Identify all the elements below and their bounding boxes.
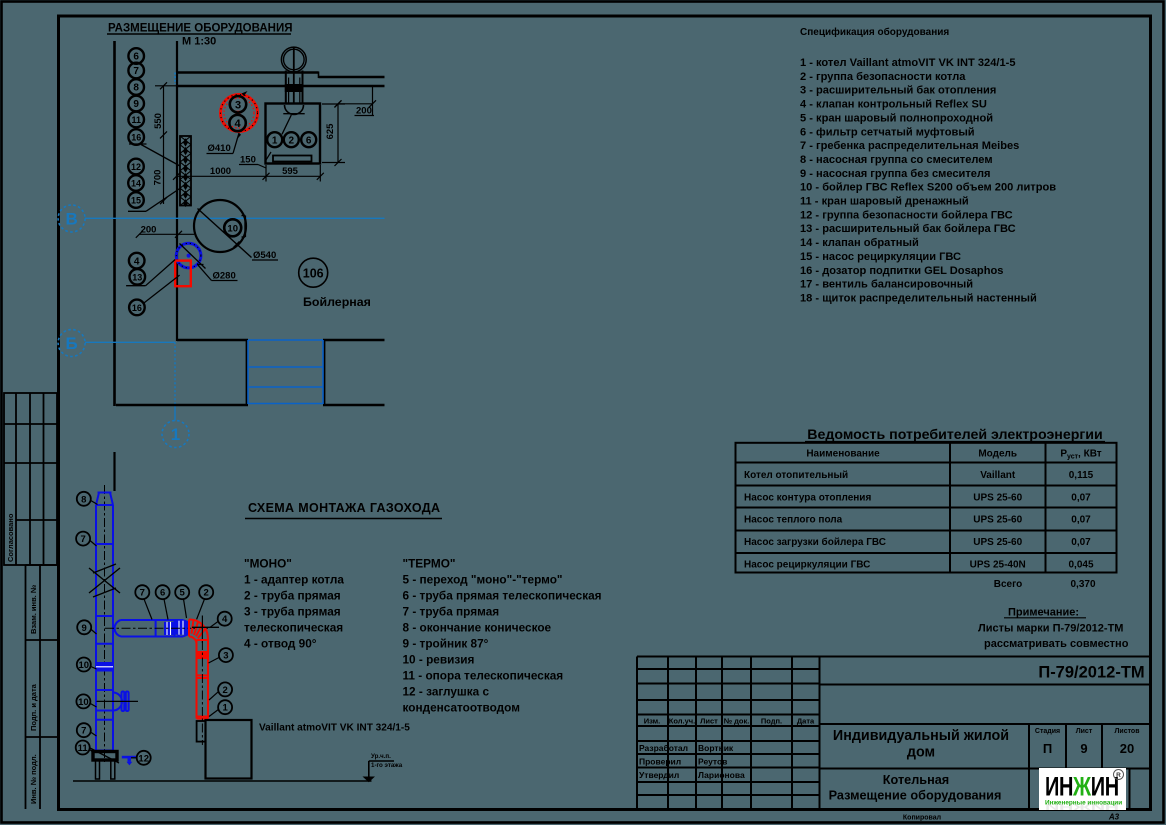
svg-text:9 - насосная группа без смесит: 9 - насосная группа без смесителя bbox=[800, 168, 991, 180]
axis Б line bbox=[85, 341, 175, 343]
svg-text:11 - кран шаровый дренажный: 11 - кран шаровый дренажный bbox=[800, 196, 969, 208]
svg-text:10 - ревизия: 10 - ревизия bbox=[403, 653, 475, 667]
svg-text:дом: дом bbox=[907, 745, 935, 761]
callout 4 lower bbox=[129, 253, 145, 269]
svg-text:200: 200 bbox=[141, 225, 157, 236]
svg-text:2: 2 bbox=[289, 135, 295, 146]
svg-text:9 - тройник 87°: 9 - тройник 87° bbox=[403, 637, 489, 651]
svg-text:150: 150 bbox=[240, 155, 256, 166]
svg-text:14: 14 bbox=[131, 179, 141, 189]
svg-text:Ведомость потребителей электро: Ведомость потребителей электроэнергии bbox=[807, 427, 1103, 443]
callout 5 bbox=[175, 585, 189, 599]
svg-text:1000: 1000 bbox=[210, 166, 231, 177]
red elbow pos4 bbox=[189, 619, 208, 644]
svg-text:20: 20 bbox=[1120, 741, 1134, 756]
stamp signature rows bbox=[639, 743, 745, 780]
svg-text:UPS 25-60: UPS 25-60 bbox=[973, 492, 1022, 503]
svg-text:12 - группа безопасности бойле: 12 - группа безопасности бойлера ГВС bbox=[800, 209, 1013, 221]
svg-text:9: 9 bbox=[82, 623, 87, 634]
svg-text:6: 6 bbox=[306, 135, 312, 146]
boiler elevation bbox=[206, 720, 252, 779]
callout 13 bbox=[130, 269, 146, 285]
window jambs bbox=[246, 340, 248, 405]
svg-text:1: 1 bbox=[171, 425, 180, 444]
svg-text:2: 2 bbox=[222, 685, 227, 696]
svg-text:Кол.уч.: Кол.уч. bbox=[669, 717, 695, 726]
callout 7 upper left bbox=[76, 532, 90, 546]
svg-text:4: 4 bbox=[134, 256, 140, 267]
svg-text:5: 5 bbox=[180, 588, 186, 599]
stamp header labels bbox=[644, 717, 815, 726]
flue entry arc bbox=[285, 105, 304, 115]
svg-text:0,07: 0,07 bbox=[1071, 515, 1091, 526]
svg-text:Котел отопительный: Котел отопительный bbox=[744, 470, 848, 481]
mono red vertical pipe bbox=[197, 638, 209, 719]
dhw tank pos10 bbox=[194, 200, 246, 252]
svg-text:10: 10 bbox=[78, 697, 89, 708]
svg-text:Всего: Всего bbox=[994, 579, 1023, 590]
svg-text:0,07: 0,07 bbox=[1071, 492, 1091, 503]
horizontal axis dash-dot bbox=[105, 627, 208, 629]
svg-text:8: 8 bbox=[81, 494, 86, 505]
callout stack 12,14,15 bbox=[128, 159, 144, 208]
svg-text:4: 4 bbox=[235, 118, 242, 130]
svg-text:рассматривать совместно: рассматривать совместно bbox=[984, 638, 1129, 650]
svg-text:телескопическая: телескопическая bbox=[244, 621, 343, 635]
svg-text:3: 3 bbox=[235, 99, 241, 111]
svg-text:7 - гребенка распределительная: 7 - гребенка распределительная Meibes bbox=[800, 140, 1019, 152]
dim 200 left bbox=[136, 231, 195, 238]
svg-text:Лист: Лист bbox=[1076, 728, 1093, 735]
svg-text:ИНЖИН: ИНЖИН bbox=[1045, 772, 1119, 803]
svg-text:Реутов: Реутов bbox=[698, 757, 727, 767]
svg-text:9: 9 bbox=[133, 99, 139, 110]
svg-text:"ТЕРМО": "ТЕРМО" bbox=[403, 557, 456, 571]
svg-text:Проверил: Проверил bbox=[639, 757, 681, 767]
svg-text:7: 7 bbox=[80, 534, 85, 545]
svg-text:А3: А3 bbox=[1108, 813, 1120, 822]
svg-text:14 - клапан обратный: 14 - клапан обратный bbox=[800, 237, 919, 249]
svg-text:Ø410: Ø410 bbox=[208, 143, 231, 154]
callout 12 bbox=[137, 751, 151, 765]
svg-text:Листов: Листов bbox=[1114, 728, 1140, 735]
ground line bbox=[73, 780, 372, 782]
mono pipe axis bbox=[201, 641, 203, 745]
svg-text:Ур.ч.п.: Ур.ч.п. bbox=[371, 753, 391, 760]
svg-text:Примечание:: Примечание: bbox=[1008, 607, 1079, 619]
callout 9 bbox=[77, 620, 91, 634]
window in wall bbox=[248, 340, 323, 404]
svg-text:Разработал: Разработал bbox=[639, 743, 688, 753]
telescopic section pos6 on vertical bbox=[96, 662, 113, 672]
svg-text:11: 11 bbox=[78, 743, 89, 754]
svg-text:8 - окончание коническое: 8 - окончание коническое bbox=[403, 621, 552, 635]
svg-text:7: 7 bbox=[81, 726, 86, 737]
svg-text:Стадия: Стадия bbox=[1035, 728, 1060, 735]
svg-text:0,07: 0,07 bbox=[1071, 537, 1091, 548]
electric consumers table grid bbox=[736, 443, 1117, 573]
svg-text:Насос рециркуляции ГВС: Насос рециркуляции ГВС bbox=[744, 559, 870, 570]
svg-text:2 - группа безопасности котла: 2 - группа безопасности котла bbox=[800, 71, 966, 83]
svg-text:106: 106 bbox=[303, 267, 324, 281]
svg-text:Подп.: Подп. bbox=[761, 717, 782, 726]
svg-text:1-го этажа: 1-го этажа bbox=[371, 762, 403, 769]
svg-text:5 - переход "моно"-"термо": 5 - переход "моно"-"термо" bbox=[403, 573, 563, 587]
condensate plug pos12 bbox=[122, 756, 137, 766]
leader to boiler circles bbox=[266, 152, 271, 160]
flue duct plan bbox=[286, 71, 303, 104]
callout 1 bbox=[267, 132, 282, 147]
svg-text:0,115: 0,115 bbox=[1069, 470, 1094, 481]
svg-text:Инв. № подл.: Инв. № подл. bbox=[29, 754, 38, 804]
title block grid bbox=[637, 657, 1150, 810]
dim 1000 / 595 bbox=[173, 165, 324, 182]
svg-text:8: 8 bbox=[133, 83, 139, 94]
bottom wall band bbox=[177, 339, 248, 342]
svg-text:1: 1 bbox=[222, 703, 228, 714]
svg-text:Изм.: Изм. bbox=[644, 717, 661, 726]
manifold pos7 hatched strip bbox=[180, 136, 191, 207]
svg-text:№ док.: № док. bbox=[724, 717, 750, 726]
svg-text:1: 1 bbox=[272, 135, 278, 146]
svg-text:16: 16 bbox=[131, 133, 141, 143]
svg-text:3 - труба прямая: 3 - труба прямая bbox=[244, 605, 341, 619]
svg-text:СХЕМА МОНТАЖА ГАЗОХОДА: СХЕМА МОНТАЖА ГАЗОХОДА bbox=[248, 501, 440, 515]
svg-text:Лист: Лист bbox=[700, 717, 718, 726]
svg-text:Утвердил: Утвердил bbox=[639, 770, 679, 780]
dosing unit red rect bbox=[175, 261, 191, 287]
svg-text:Бойлерная: Бойлерная bbox=[303, 295, 371, 309]
left margin approval table bbox=[4, 393, 57, 565]
callout 10 bbox=[77, 658, 91, 672]
svg-text:10: 10 bbox=[79, 660, 90, 671]
svg-text:Руст, КВт: Руст, КВт bbox=[1060, 449, 1101, 461]
svg-text:Наименование: Наименование bbox=[806, 449, 880, 460]
svg-text:5 - кран шаровый полнопроходно: 5 - кран шаровый полнопроходной bbox=[800, 112, 993, 124]
termo vertical pipe bbox=[96, 493, 113, 752]
svg-text:3 - расширительный бак отоплен: 3 - расширительный бак отопления bbox=[800, 85, 996, 97]
svg-text:Копировал: Копировал bbox=[903, 815, 941, 822]
svg-text:2: 2 bbox=[204, 588, 209, 599]
svg-text:0,370: 0,370 bbox=[1070, 579, 1095, 590]
callout 1 red bbox=[218, 700, 232, 714]
axis Б bubble bbox=[58, 330, 85, 357]
axis В bubble bbox=[58, 205, 85, 232]
svg-text:Подп. и дата: Подп. и дата bbox=[29, 683, 38, 731]
svg-text:12: 12 bbox=[138, 753, 149, 764]
svg-text:РАЗМЕЩЕНИЕ ОБОРУДОВАНИЯ: РАЗМЕЩЕНИЕ ОБОРУДОВАНИЯ bbox=[108, 23, 293, 35]
svg-text:6: 6 bbox=[133, 52, 139, 63]
svg-text:595: 595 bbox=[282, 166, 299, 177]
svg-text:4: 4 bbox=[222, 614, 228, 625]
svg-text:7: 7 bbox=[133, 66, 139, 77]
svg-text:Б: Б bbox=[65, 334, 77, 353]
svg-text:В: В bbox=[65, 210, 77, 229]
horizontal termo pipe bbox=[115, 620, 188, 637]
svg-text:Дата: Дата bbox=[797, 717, 815, 726]
svg-text:6: 6 bbox=[160, 588, 165, 599]
svg-text:7 - труба прямая: 7 - труба прямая bbox=[403, 605, 500, 619]
svg-text:12: 12 bbox=[131, 162, 141, 172]
boiler plan pos1 bbox=[266, 104, 321, 164]
svg-text:1 - адаптер котла: 1 - адаптер котла bbox=[244, 573, 344, 587]
svg-text:UPS 25-60: UPS 25-60 bbox=[973, 515, 1022, 526]
left margin cells bbox=[26, 565, 58, 809]
svg-text:Насос контура отопления: Насос контура отопления bbox=[744, 492, 871, 503]
svg-text:Согласовано: Согласовано bbox=[6, 513, 15, 562]
svg-text:UPS 25-60: UPS 25-60 bbox=[973, 537, 1022, 548]
svg-text:Инженерные инновации: Инженерные инновации bbox=[1045, 800, 1122, 807]
svg-text:Модель: Модель bbox=[978, 449, 1017, 460]
callout 2 red bbox=[218, 682, 232, 696]
axis В line bbox=[85, 217, 385, 219]
svg-text:8 - насосная группа со смесите: 8 - насосная группа со смесителем bbox=[800, 154, 993, 166]
wall room left bbox=[176, 41, 178, 341]
svg-text:3: 3 bbox=[223, 651, 228, 662]
svg-text:15 - насос рециркуляции ГВС: 15 - насос рециркуляции ГВС bbox=[800, 251, 961, 263]
dim 200 top right bbox=[335, 87, 377, 116]
svg-text:6 - труба прямая телескопическ: 6 - труба прямая телескопическая bbox=[403, 589, 602, 603]
svg-text:R: R bbox=[1116, 772, 1121, 779]
callout 4 bbox=[229, 115, 245, 131]
svg-text:10: 10 bbox=[227, 223, 238, 234]
svg-text:Котельная: Котельная bbox=[883, 773, 949, 787]
callout 8 bbox=[77, 492, 91, 506]
room number 106 bbox=[299, 258, 328, 287]
expansion tank pos3 red circle bbox=[221, 95, 258, 132]
svg-text:UPS 25-40N: UPS 25-40N bbox=[970, 559, 1026, 570]
support pos11 bbox=[90, 748, 119, 779]
svg-text:17 - вентиль балансировочный: 17 - вентиль балансировочный bbox=[800, 279, 973, 291]
svg-text:конденсатоотводом: конденсатоотводом bbox=[403, 701, 520, 715]
svg-text:12 - заглушка с: 12 - заглушка с bbox=[403, 685, 490, 699]
TERMO list bbox=[403, 557, 602, 715]
pipe break X bbox=[89, 564, 120, 597]
svg-text:11: 11 bbox=[131, 115, 141, 125]
callout 7 lower left bbox=[77, 723, 91, 737]
svg-text:4 - клапан контрольный Reflex: 4 - клапан контрольный Reflex SU bbox=[800, 99, 987, 111]
elbow cross ticks bbox=[192, 626, 219, 628]
svg-text:"МОНО": "МОНО" bbox=[244, 557, 292, 571]
telescopic joint pos5/6 filled bbox=[164, 622, 174, 635]
svg-text:9: 9 bbox=[1080, 741, 1087, 756]
callout 10 bbox=[224, 219, 241, 236]
svg-text:М 1:30: М 1:30 bbox=[182, 36, 216, 48]
svg-text:Индивидуальный жилой: Индивидуальный жилой bbox=[833, 728, 1009, 744]
svg-text:Vaillant: Vaillant bbox=[980, 470, 1016, 481]
svg-text:7: 7 bbox=[140, 588, 145, 599]
callout 2 bbox=[284, 132, 299, 147]
wall left outer bbox=[113, 452, 115, 491]
svg-text:11 - опора телескопическая: 11 - опора телескопическая bbox=[403, 669, 564, 683]
callout 4 bbox=[218, 612, 232, 626]
callout 2 elbow bbox=[199, 585, 213, 599]
dim 625 bbox=[322, 101, 345, 167]
svg-text:16: 16 bbox=[132, 303, 142, 313]
svg-text:1 - котел Vaillant atmoVIT VK: 1 - котел Vaillant atmoVIT VK INT 324/1-… bbox=[800, 57, 1016, 69]
svg-text:Vaillant atmoVIT VK INT 324/1-: Vaillant atmoVIT VK INT 324/1-5 bbox=[259, 723, 410, 734]
callout 3 bbox=[230, 96, 246, 112]
floor level mark bbox=[363, 761, 395, 782]
axis 1 top tick bbox=[174, 73, 176, 85]
svg-text:15: 15 bbox=[131, 196, 141, 206]
table header bbox=[806, 449, 1101, 461]
svg-text:13: 13 bbox=[132, 272, 142, 282]
svg-text:18 - щиток распределительный н: 18 - щиток распределительный настенный bbox=[800, 292, 1037, 304]
callout stack 6,7,8,9,11,16 bbox=[128, 48, 144, 145]
svg-text:П: П bbox=[1043, 741, 1052, 756]
stage cells bbox=[1035, 728, 1140, 735]
svg-text:Размещение оборудования: Размещение оборудования bbox=[829, 789, 1002, 803]
expansion tank pos13 blue circle bbox=[176, 243, 201, 268]
svg-text:10 - бойлер ГВС Reflex S200 об: 10 - бойлер ГВС Reflex S200 объем 200 ли… bbox=[800, 182, 1056, 194]
callout 7 horizontal bbox=[135, 585, 149, 599]
svg-text:6 - фильтр сетчатый муфтовый: 6 - фильтр сетчатый муфтовый bbox=[800, 126, 975, 138]
flue circle on wall bbox=[281, 47, 306, 72]
callout 11 bbox=[76, 741, 90, 755]
svg-text:0,045: 0,045 bbox=[1068, 559, 1093, 570]
svg-text:625: 625 bbox=[325, 123, 336, 140]
dim 550/700 bbox=[155, 82, 177, 204]
svg-text:2 - труба прямая: 2 - труба прямая bbox=[244, 589, 341, 603]
callout 6 bbox=[301, 132, 316, 147]
svg-text:Спецификация оборудования: Спецификация оборудования bbox=[800, 26, 949, 38]
logo box bbox=[1039, 768, 1126, 810]
axis 1 line bbox=[174, 342, 176, 404]
svg-text:4 - отвод 90°: 4 - отвод 90° bbox=[244, 637, 317, 651]
svg-text:П-79/2012-ТМ: П-79/2012-ТМ bbox=[1038, 664, 1144, 682]
axis 1 bubble bbox=[162, 421, 189, 448]
svg-text:Насос загрузки бойлера ГВС: Насос загрузки бойлера ГВС bbox=[744, 536, 886, 548]
svg-text:550: 550 bbox=[153, 113, 164, 129]
svg-text:Взам. инв. №: Взам. инв. № bbox=[29, 585, 38, 634]
callout 3 red bbox=[219, 648, 233, 662]
svg-text:700: 700 bbox=[153, 170, 164, 186]
chimney axis dash-dot bbox=[104, 485, 106, 762]
MONO list bbox=[244, 557, 344, 651]
svg-text:16 - дозатор подпитки GEL Dosa: 16 - дозатор подпитки GEL Dosaphos bbox=[800, 265, 1003, 277]
callout 16 lower bbox=[129, 300, 145, 316]
callout 10 revision bbox=[76, 694, 90, 708]
svg-text:13 - расширительный бак бойлер: 13 - расширительный бак бойлера ГВС bbox=[800, 223, 1016, 235]
table rows bbox=[744, 470, 1094, 570]
burner rect bbox=[273, 156, 312, 162]
svg-text:Листы марки П-79/2012-ТМ: Листы марки П-79/2012-ТМ bbox=[978, 623, 1123, 635]
svg-text:Насос теплого пола: Насос теплого пола bbox=[744, 515, 843, 526]
callout 6 horizontal bbox=[156, 585, 170, 599]
revision pos10 side outlet bbox=[113, 693, 122, 711]
svg-text:Ларионова: Ларионова bbox=[698, 770, 745, 780]
telescopic pos3 filled red bbox=[197, 651, 209, 659]
svg-text:200: 200 bbox=[356, 106, 372, 117]
svg-text:Вортник: Вортник bbox=[698, 743, 734, 753]
wall top double bbox=[177, 71, 319, 73]
